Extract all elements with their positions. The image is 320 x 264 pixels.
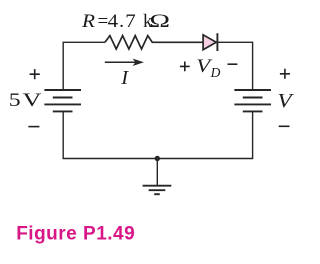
svg-text:4.7: 4.7 [108, 11, 137, 32]
svg-text:Ω: Ω [150, 11, 170, 32]
svg-text:Figure P1.49: Figure P1.49 [16, 223, 135, 244]
svg-text:I: I [120, 67, 129, 89]
svg-text:5: 5 [9, 89, 21, 110]
svg-text:R: R [81, 11, 95, 32]
svg-text:V: V [23, 90, 42, 111]
svg-text:D: D [210, 65, 221, 80]
